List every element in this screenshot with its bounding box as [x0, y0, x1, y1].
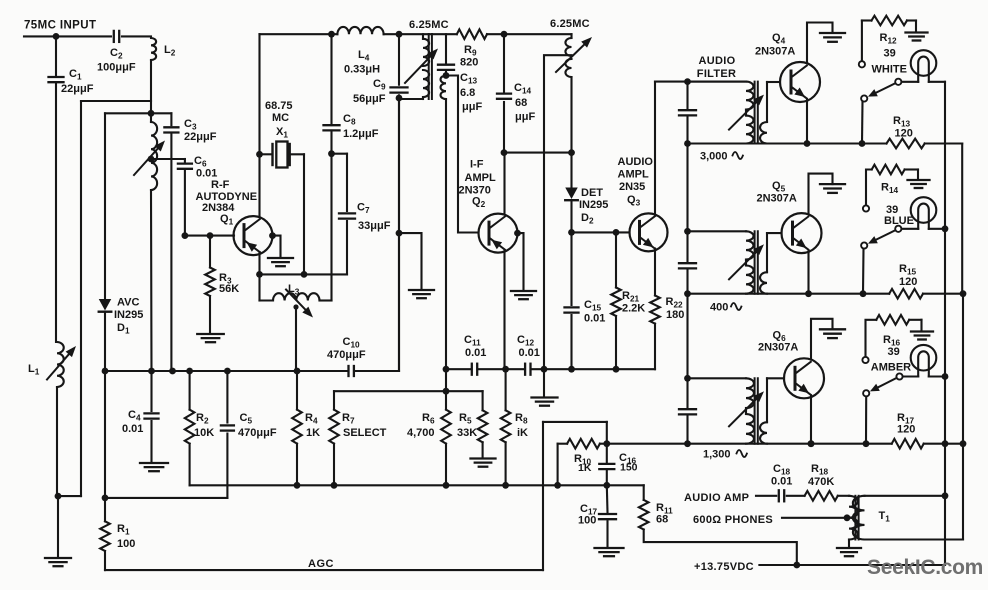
- svg-text:IN295: IN295: [114, 309, 143, 321]
- svg-text:AUDIO: AUDIO: [618, 156, 654, 168]
- svg-text:BLUE: BLUE: [884, 215, 914, 227]
- svg-text:180: 180: [666, 309, 684, 321]
- svg-text:0.01: 0.01: [196, 168, 217, 180]
- svg-text:150: 150: [620, 462, 638, 474]
- svg-text:AMPL: AMPL: [618, 169, 649, 181]
- svg-text:MC: MC: [272, 112, 289, 124]
- svg-text:μμF: μμF: [462, 101, 482, 113]
- svg-text:2N307A: 2N307A: [757, 193, 797, 205]
- svg-text:75MC INPUT: 75MC INPUT: [24, 20, 96, 32]
- svg-text:WHITE: WHITE: [872, 63, 907, 75]
- svg-text:2N35: 2N35: [619, 181, 645, 193]
- svg-text:100: 100: [578, 515, 596, 527]
- svg-text:1,300: 1,300: [703, 449, 731, 461]
- svg-text:FILTER: FILTER: [697, 68, 736, 80]
- svg-text:68: 68: [656, 514, 668, 526]
- svg-text:470K: 470K: [808, 476, 834, 488]
- svg-text:1K: 1K: [578, 462, 592, 474]
- svg-text:820: 820: [460, 57, 478, 69]
- svg-text:68.75: 68.75: [265, 100, 293, 112]
- svg-text:3,000: 3,000: [700, 151, 728, 163]
- svg-text:R-F: R-F: [211, 179, 230, 191]
- svg-text:AUDIO: AUDIO: [699, 55, 736, 67]
- svg-text:2N307A: 2N307A: [758, 342, 798, 354]
- svg-text:39: 39: [884, 48, 896, 60]
- svg-text:2N384: 2N384: [202, 202, 235, 214]
- svg-text:1K: 1K: [306, 427, 320, 439]
- svg-text:39: 39: [888, 346, 900, 358]
- svg-text:AVC: AVC: [117, 297, 139, 309]
- svg-text:33μμF: 33μμF: [358, 220, 391, 232]
- svg-text:22μμF: 22μμF: [61, 83, 94, 95]
- svg-text:AUDIO AMP: AUDIO AMP: [684, 492, 749, 504]
- svg-text:56μμF: 56μμF: [353, 93, 386, 105]
- svg-text:2N307A: 2N307A: [755, 46, 795, 58]
- svg-text:iK: iK: [517, 427, 528, 439]
- svg-text:120: 120: [895, 128, 913, 140]
- svg-text:0.01: 0.01: [771, 476, 792, 488]
- svg-text:4,700: 4,700: [407, 427, 435, 439]
- svg-text:2.2K: 2.2K: [622, 303, 645, 315]
- svg-text:0.33μH: 0.33μH: [344, 64, 380, 76]
- svg-text:μμF: μμF: [515, 111, 535, 123]
- svg-text:56K: 56K: [219, 283, 239, 295]
- svg-text:IN295: IN295: [579, 199, 608, 211]
- svg-text:0.01: 0.01: [122, 423, 143, 435]
- svg-text:AMPL: AMPL: [465, 172, 496, 184]
- svg-text:68: 68: [515, 97, 527, 109]
- svg-text:22μμF: 22μμF: [184, 131, 217, 143]
- svg-text:1.2μμF: 1.2μμF: [343, 128, 379, 140]
- svg-text:I-F: I-F: [470, 159, 484, 171]
- svg-text:33K: 33K: [457, 427, 477, 439]
- svg-text:600Ω PHONES: 600Ω PHONES: [693, 514, 773, 526]
- svg-text:6.8: 6.8: [460, 87, 475, 99]
- svg-text:SELECT: SELECT: [343, 427, 387, 439]
- svg-text:+13.75VDC: +13.75VDC: [694, 561, 754, 573]
- svg-text:AMBER: AMBER: [871, 362, 911, 374]
- svg-text:120: 120: [899, 276, 917, 288]
- svg-text:0.01: 0.01: [465, 347, 486, 359]
- svg-text:100: 100: [117, 538, 135, 550]
- svg-text:0.01: 0.01: [584, 313, 605, 325]
- svg-text:6.25MC: 6.25MC: [550, 18, 590, 30]
- svg-text:SeekIC.com: SeekIC.com: [867, 556, 983, 579]
- svg-text:400: 400: [710, 302, 728, 314]
- svg-text:10K: 10K: [194, 427, 214, 439]
- svg-text:AGC: AGC: [308, 558, 334, 570]
- svg-text:6.25MC: 6.25MC: [409, 19, 449, 31]
- svg-text:470μμF: 470μμF: [327, 349, 366, 361]
- svg-text:470μμF: 470μμF: [238, 427, 277, 439]
- svg-text:120: 120: [897, 424, 915, 436]
- svg-text:100μμF: 100μμF: [97, 62, 136, 74]
- svg-text:0.01: 0.01: [519, 347, 540, 359]
- svg-text:DET: DET: [581, 187, 603, 199]
